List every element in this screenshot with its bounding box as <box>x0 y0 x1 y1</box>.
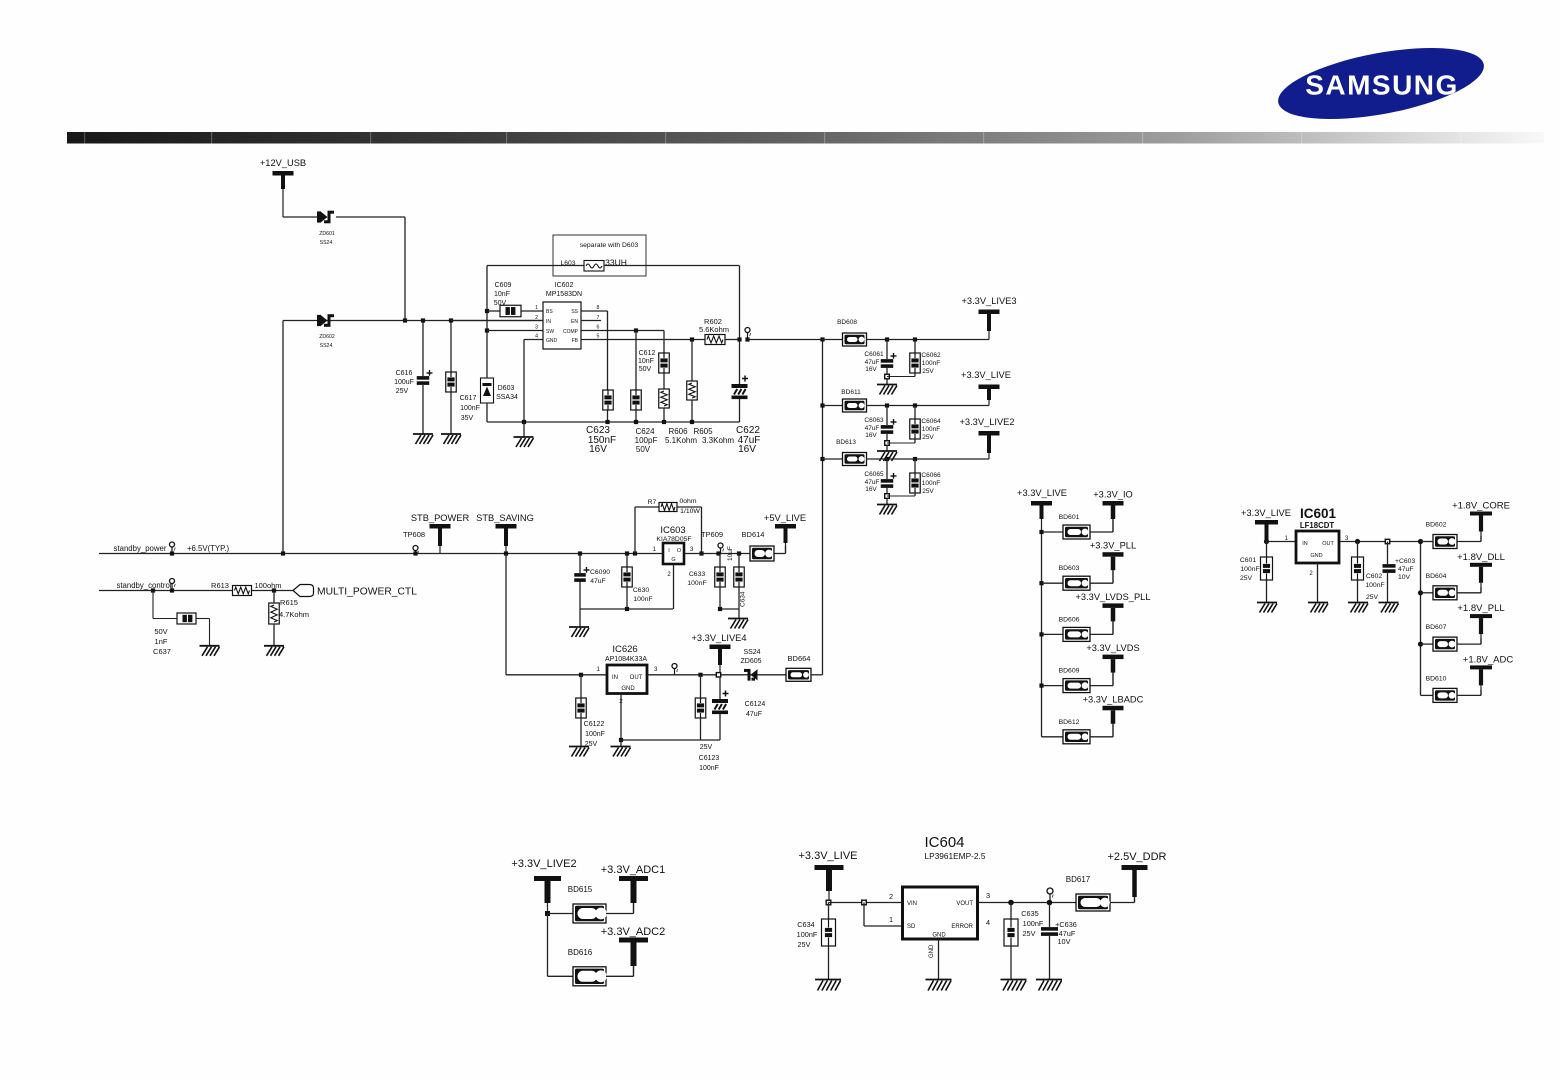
svg-text:+5V_LIVE: +5V_LIVE <box>764 513 806 523</box>
svg-text:100ohm: 100ohm <box>254 581 281 590</box>
wire BD608 out <box>867 339 990 341</box>
resistor R602 <box>705 335 725 345</box>
node mid row BD603 <box>1039 581 1043 585</box>
svg-text:IN: IN <box>546 319 551 325</box>
node IC604 in <box>826 900 831 905</box>
gradient title bar <box>67 132 1544 144</box>
svg-text:L603: L603 <box>560 260 575 267</box>
svg-text:25V: 25V <box>396 388 409 395</box>
capacitor C624 <box>631 390 642 410</box>
svg-text:SS: SS <box>571 309 578 315</box>
wire IC604 gnd <box>938 939 940 980</box>
wire BD609 out <box>1090 685 1113 687</box>
svg-text:100nF: 100nF <box>687 580 706 587</box>
svg-text:47uF: 47uF <box>865 425 880 432</box>
wire BD664 to bus <box>811 674 823 676</box>
wire COMP pin6 <box>581 330 664 332</box>
capacitor C6063 <box>886 406 888 426</box>
svg-text:SSA34: SSA34 <box>496 394 518 401</box>
svg-text:+3.3V_ADC2: +3.3V_ADC2 <box>601 926 666 938</box>
testpoint IC626 out <box>672 664 677 669</box>
node mid row BD601 <box>1039 530 1043 534</box>
net tag MULTI_POWER_CTL <box>293 585 314 597</box>
svg-text:+3.3V_LVDS_PLL: +3.3V_LVDS_PLL <box>1075 592 1150 602</box>
node C603 <box>1385 539 1389 543</box>
svg-text:C6063: C6063 <box>864 417 884 424</box>
capacitor C636 <box>1049 903 1051 928</box>
svg-text:GND: GND <box>932 933 946 939</box>
svg-text:BD617: BD617 <box>1066 875 1091 884</box>
svg-text:C635: C635 <box>1021 909 1038 918</box>
svg-text:GND: GND <box>1310 553 1322 559</box>
wire +12V down <box>282 216 284 218</box>
wire GND pin4 <box>524 339 543 341</box>
svg-text:1: 1 <box>535 305 538 311</box>
svg-text:+3.3V_LIVE2: +3.3V_LIVE2 <box>959 417 1014 427</box>
wire BD612 out <box>1090 736 1113 738</box>
svg-text:+6.5V(TYP.): +6.5V(TYP.) <box>187 544 230 553</box>
svg-text:100nF: 100nF <box>922 426 940 433</box>
wire BD607 out <box>1457 643 1481 645</box>
wire IN pin2 <box>451 320 543 322</box>
svg-text:TP608: TP608 <box>403 530 425 539</box>
inductor L603 <box>584 261 604 272</box>
svg-text:100nF: 100nF <box>585 731 605 738</box>
svg-text:1: 1 <box>889 915 893 924</box>
svg-text:SW: SW <box>546 329 554 335</box>
ferrite bead BD602 <box>1433 535 1457 549</box>
node IC601 in <box>1264 539 1269 544</box>
wire IC601 in <box>1267 541 1297 543</box>
svg-text:8: 8 <box>597 305 600 311</box>
svg-text:C624: C624 <box>635 427 655 436</box>
capacitor C634b <box>828 903 830 920</box>
ferrite bead BD606 <box>1063 627 1090 641</box>
ferrite bead BD607 <box>1433 637 1457 651</box>
svg-text:R615: R615 <box>280 598 298 607</box>
wire BD611 out <box>867 405 990 407</box>
svg-text:BD607: BD607 <box>1426 624 1447 631</box>
wire BD617 out <box>1110 902 1135 904</box>
wire BD614 out <box>774 553 786 555</box>
svg-text:+2.5V_DDR: +2.5V_DDR <box>1107 851 1166 863</box>
svg-text:SS24: SS24 <box>320 343 333 349</box>
ground C601 <box>1257 602 1277 604</box>
capacitor C6124 <box>719 677 721 699</box>
node bus row1 <box>820 337 824 341</box>
capacitor C601 <box>1266 542 1268 558</box>
svg-text:100nF: 100nF <box>1240 566 1259 573</box>
wire BD603 out <box>1090 582 1113 584</box>
svg-text:10uF: 10uF <box>727 546 734 561</box>
svg-text:+3.3V_LBADC: +3.3V_LBADC <box>1083 694 1144 704</box>
svg-text:5: 5 <box>597 334 600 340</box>
svg-text:+1.8V_PLL: +1.8V_PLL <box>1457 603 1504 614</box>
svg-text:47uF: 47uF <box>590 578 606 585</box>
svg-text:BD664: BD664 <box>788 654 811 663</box>
node bus row2 <box>820 403 824 407</box>
svg-text:BD612: BD612 <box>1059 719 1080 726</box>
wire IC626 gnd <box>620 694 622 741</box>
wire row3 to BD613 <box>823 458 843 460</box>
wire gnd link row3 <box>887 495 915 497</box>
node right row BD610 <box>1421 694 1434 696</box>
svg-text:25V: 25V <box>1240 575 1253 582</box>
svg-text:+3.3V_LIVE3: +3.3V_LIVE3 <box>961 296 1016 306</box>
svg-text:25V: 25V <box>922 434 934 441</box>
wire IC601 gnd <box>1317 563 1319 603</box>
ground C636 <box>1036 979 1062 981</box>
svg-text:1: 1 <box>597 666 601 673</box>
svg-text:25V: 25V <box>922 368 934 375</box>
capacitor C6062 <box>913 337 917 341</box>
svg-text:16V: 16V <box>589 444 607 455</box>
ferrite bead BD603 <box>1063 576 1090 590</box>
svg-text:25V: 25V <box>700 744 713 751</box>
capacitor C6066 <box>913 457 917 461</box>
svg-text:KIA78D05F: KIA78D05F <box>656 536 691 543</box>
wire standby_control <box>99 590 233 592</box>
svg-text:D603: D603 <box>498 385 515 392</box>
svg-text:TP609: TP609 <box>701 530 723 539</box>
svg-text:BD615: BD615 <box>568 885 593 894</box>
node C637 branch <box>151 588 155 592</box>
vertical 3.3V bus <box>822 340 824 675</box>
ground C616 <box>413 433 433 435</box>
node R615 <box>272 588 276 592</box>
svg-text:BD603: BD603 <box>1059 565 1080 572</box>
svg-text:C612: C612 <box>639 350 656 357</box>
ferrite bead BD617 <box>1076 894 1110 911</box>
svg-text:C6061: C6061 <box>864 351 884 358</box>
node C6090 <box>578 551 582 555</box>
svg-text:C633: C633 <box>689 571 705 578</box>
ground IC601 <box>1308 602 1328 604</box>
ferrite bead BD612 <box>1063 730 1090 744</box>
ferrite bead BD614 <box>750 546 774 561</box>
capacitor C634 <box>737 551 741 555</box>
svg-text:IC602: IC602 <box>555 282 574 289</box>
svg-text:C6123: C6123 <box>699 755 720 762</box>
wire SW pin3 <box>487 330 543 332</box>
resistor R605 <box>690 337 694 341</box>
svg-text:G: G <box>671 557 675 563</box>
node C6065 <box>885 457 889 461</box>
wire BD602 out <box>1457 541 1481 543</box>
svg-text:GND: GND <box>621 686 635 692</box>
ground C637 <box>200 645 220 647</box>
wire output to bus <box>748 339 823 341</box>
svg-text:C609: C609 <box>495 282 512 289</box>
svg-text:+3.3V_PLL: +3.3V_PLL <box>1090 541 1136 551</box>
svg-text:25V: 25V <box>1023 929 1036 938</box>
node output <box>737 337 741 341</box>
svg-text:C6062: C6062 <box>921 352 941 359</box>
svg-text:47uF: 47uF <box>1398 566 1414 573</box>
wire IC604 out <box>978 902 1077 904</box>
svg-text:STB_SAVING: STB_SAVING <box>476 513 534 523</box>
svg-text:1/10W: 1/10W <box>680 508 700 515</box>
capacitor C630 <box>626 554 628 568</box>
svg-text:+12V_USB: +12V_USB <box>260 158 306 168</box>
node BD615 <box>545 911 550 916</box>
note box separate with D603 <box>553 235 646 276</box>
node mid row BD606 <box>1039 632 1043 636</box>
ground C633 C634 <box>728 618 748 620</box>
svg-text:+3.3V_LVDS: +3.3V_LVDS <box>1086 643 1139 653</box>
voltage regulator IC626 <box>607 665 647 694</box>
wire mid bus <box>1041 532 1043 737</box>
svg-text:R613: R613 <box>211 581 229 590</box>
svg-text:25V: 25V <box>798 940 811 949</box>
svg-text:ZD605: ZD605 <box>740 658 761 665</box>
gnd rail C633 C634 <box>720 608 739 610</box>
capacitor C635 <box>1010 903 1012 920</box>
svg-text:100nF: 100nF <box>699 765 719 772</box>
svg-text:100nF: 100nF <box>1023 919 1044 928</box>
svg-text:100nF: 100nF <box>922 360 940 367</box>
resistor R613 <box>233 586 252 596</box>
capacitor C602 <box>1357 542 1359 558</box>
testpoint output <box>745 328 750 333</box>
svg-text:+1.8V_DLL: +1.8V_DLL <box>1457 552 1505 563</box>
node COMP-C624 <box>634 328 638 332</box>
svg-text:C6065: C6065 <box>864 471 884 478</box>
svg-text:BS: BS <box>546 309 553 315</box>
svg-text:C634: C634 <box>797 920 814 929</box>
ground IC604 <box>926 979 952 981</box>
ferrite bead BD615 <box>573 904 606 923</box>
resistor R615 <box>273 591 275 604</box>
gnd rail IC602 <box>487 421 740 423</box>
svg-text:+1.8V_CORE: +1.8V_CORE <box>1452 501 1510 512</box>
svg-text:3: 3 <box>535 325 538 331</box>
svg-text:3.3Kohm: 3.3Kohm <box>702 436 734 445</box>
ferrite bead BD664 <box>786 668 811 681</box>
capacitor C6064 <box>913 403 917 407</box>
svg-text:100uF: 100uF <box>394 379 414 386</box>
node C6061 bottom <box>886 368 888 377</box>
svg-text:50V: 50V <box>639 366 652 373</box>
capacitor C609 <box>500 305 521 317</box>
svg-text:AP1084K33A: AP1084K33A <box>605 656 647 663</box>
capacitor C616 <box>422 321 424 377</box>
svg-text:1nF: 1nF <box>155 637 168 646</box>
zener diode ZD605 <box>744 674 758 676</box>
ground C635 <box>1001 979 1027 981</box>
svg-text:25V: 25V <box>1366 594 1379 601</box>
svg-text:100nF: 100nF <box>797 930 818 939</box>
ground IC626 <box>611 746 631 748</box>
svg-text:R606: R606 <box>668 427 688 436</box>
svg-text:50V: 50V <box>494 300 507 307</box>
ground row2 <box>886 445 888 451</box>
svg-text:50V: 50V <box>636 445 651 454</box>
svg-text:C6122: C6122 <box>584 721 605 728</box>
wire D603 bottom <box>486 403 488 422</box>
ground row1 <box>886 378 888 385</box>
svg-text:ERROR: ERROR <box>951 924 973 930</box>
wire BD610 out <box>1457 694 1481 696</box>
svg-text:GND: GND <box>929 944 935 958</box>
ground C602 <box>1348 602 1368 604</box>
wire row2 <box>283 320 405 322</box>
node 12V join <box>281 551 285 555</box>
wire ZD605 to BD664 <box>758 674 786 676</box>
svg-text:50V: 50V <box>154 627 167 636</box>
wire IC626 out <box>647 674 744 676</box>
testpoint standby_power <box>170 542 175 547</box>
node C630 <box>625 551 629 555</box>
svg-text:100nF: 100nF <box>1365 582 1384 589</box>
wire IC603 out <box>684 553 750 555</box>
node mid row BD609 <box>1039 684 1043 688</box>
svg-text:10nF: 10nF <box>494 291 510 298</box>
wire gnd link row1 <box>887 376 915 378</box>
capacitor C623 <box>603 390 614 410</box>
svg-text:+3.3V_LIVE: +3.3V_LIVE <box>798 850 857 862</box>
svg-text:BD601: BD601 <box>1059 514 1080 521</box>
svg-text:MULTI_POWER_CTL: MULTI_POWER_CTL <box>317 587 417 598</box>
node bus row3 <box>820 457 824 461</box>
svg-text:BD610: BD610 <box>1426 675 1447 682</box>
ferrite bead BD608 <box>843 333 867 346</box>
wire LIVE2 bus <box>547 914 549 977</box>
svg-text:IC601: IC601 <box>1300 506 1337 521</box>
node C635 <box>1008 900 1014 906</box>
svg-text:SS24: SS24 <box>743 649 760 656</box>
svg-text:O: O <box>677 548 682 554</box>
svg-text:STB_POWER: STB_POWER <box>411 513 470 523</box>
node SW <box>485 328 489 332</box>
ferrite bead BD611 <box>843 399 867 412</box>
node C6063 bottom <box>886 434 888 443</box>
svg-text:BD614: BD614 <box>742 530 765 539</box>
svg-text:47uF: 47uF <box>865 479 880 486</box>
wire gnd link row2 <box>887 442 915 444</box>
svg-text:C602: C602 <box>1366 573 1382 580</box>
wire row1 to BD608 <box>823 339 843 341</box>
node C6065 bottom <box>886 488 888 496</box>
node C609 <box>485 309 489 313</box>
svg-text:C601: C601 <box>1240 557 1256 564</box>
ferrite bead BD616 <box>573 967 606 986</box>
ground C617 <box>441 433 461 435</box>
node SD branch <box>862 900 867 905</box>
ferrite bead BD609 <box>1063 679 1090 693</box>
svg-text:+3.3V_LIVE4: +3.3V_LIVE4 <box>691 633 746 643</box>
svg-text:C637: C637 <box>153 647 171 656</box>
wire +12V to standby rail <box>282 321 284 554</box>
svg-text:C616: C616 <box>396 370 413 377</box>
svg-text:35V: 35V <box>461 415 474 422</box>
ground row3 <box>886 498 888 505</box>
ferrite bead BD610 <box>1433 688 1457 702</box>
resistor R7 bypass <box>633 551 637 555</box>
svg-text:+3.3V_LIVE: +3.3V_LIVE <box>961 370 1011 380</box>
svg-text:16V: 16V <box>865 432 877 439</box>
capacitor C6122 <box>580 675 582 698</box>
svg-text:BD608: BD608 <box>837 319 857 326</box>
svg-text:+C636: +C636 <box>1055 920 1077 929</box>
ground C634b <box>815 979 841 981</box>
voltage regulator IC601 <box>1296 531 1339 563</box>
svg-text:SAMSUNG: SAMSUNG <box>1305 70 1459 101</box>
svg-text:2: 2 <box>535 315 538 321</box>
svg-text:IN: IN <box>1302 541 1308 547</box>
svg-text:LP3961EMP-2.5: LP3961EMP-2.5 <box>925 851 986 861</box>
capacitor C612 <box>659 353 670 373</box>
svg-text:BD611: BD611 <box>841 389 861 396</box>
wire R613 to tag <box>252 590 294 592</box>
resistor R606 <box>663 373 665 389</box>
svg-text:FB: FB <box>572 338 579 344</box>
ground C6122 <box>569 746 589 748</box>
svg-text:C6064: C6064 <box>921 418 941 425</box>
svg-text:16V: 16V <box>865 366 877 373</box>
wire BD615 out <box>606 913 634 915</box>
capacitor C633 <box>719 554 721 568</box>
svg-text:ZD602: ZD602 <box>319 334 335 340</box>
svg-text:OUT: OUT <box>630 675 643 681</box>
wire SW top <box>487 265 584 267</box>
svg-text:10V: 10V <box>1058 937 1071 946</box>
node C602 <box>1355 539 1360 544</box>
zener diode ZD602 <box>320 315 328 327</box>
svg-text:IC603: IC603 <box>660 525 685 536</box>
node C6063 <box>885 403 889 407</box>
ground IC602 <box>523 422 525 437</box>
gnd rail IC626 <box>621 739 720 741</box>
wire right bus <box>1420 542 1422 696</box>
wire IC604 in <box>829 902 903 904</box>
svg-text:+3.3V_LIVE: +3.3V_LIVE <box>1017 488 1067 498</box>
svg-text:100nF: 100nF <box>460 405 480 412</box>
zener diode ZD601 <box>320 211 328 223</box>
wire BD604 out <box>1457 592 1481 594</box>
wire SD branch <box>863 903 865 927</box>
capacitor C603 <box>1387 542 1389 565</box>
svg-text:C617: C617 <box>460 395 477 402</box>
wire EN stub <box>581 320 601 322</box>
svg-text:+3.3V_LIVE2: +3.3V_LIVE2 <box>511 858 576 870</box>
svg-text:ZD601: ZD601 <box>319 231 335 237</box>
svg-text:4.7Kohm: 4.7Kohm <box>279 610 309 619</box>
capacitor C6123 <box>698 673 702 677</box>
node LIVE4 <box>716 673 720 677</box>
svg-text:10V: 10V <box>1398 574 1411 581</box>
svg-text:BD616: BD616 <box>568 948 593 957</box>
wire FB pin5 <box>581 339 705 341</box>
svg-text:5.6Kohm: 5.6Kohm <box>699 325 729 334</box>
testpoint standby_control <box>170 579 175 584</box>
svg-text:6: 6 <box>597 325 600 331</box>
wire row2 to BD611 <box>823 405 843 407</box>
wire BD601 out <box>1090 531 1113 533</box>
svg-text:+1.8V_ADC: +1.8V_ADC <box>1463 654 1514 665</box>
svg-text:16V: 16V <box>738 444 756 455</box>
svg-text:100nF: 100nF <box>922 480 940 487</box>
svg-text:GND: GND <box>546 338 558 344</box>
wire down x405 <box>404 217 406 321</box>
svg-text:R7: R7 <box>648 499 657 506</box>
wire standby_power <box>99 553 663 555</box>
svg-text:5.1Kohm: 5.1Kohm <box>665 436 697 445</box>
svg-text:BD609: BD609 <box>1059 668 1080 675</box>
svg-text:LF18CDT: LF18CDT <box>1300 521 1334 530</box>
svg-text:COMP: COMP <box>563 329 579 335</box>
capacitor C6061 <box>886 340 888 360</box>
